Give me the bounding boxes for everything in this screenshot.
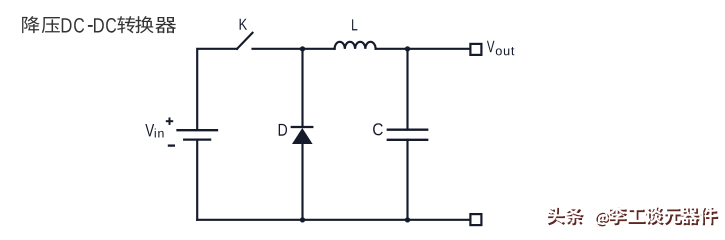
wire top-left corner segment <box>197 49 237 129</box>
label V_out <box>487 41 514 56</box>
diode D <box>292 127 313 144</box>
capacitor C plates <box>388 130 427 140</box>
watermark 头条@李工谈元器件 <box>546 206 718 226</box>
wire diode branch lower <box>301 144 303 220</box>
label K <box>240 19 247 30</box>
node junction diode top <box>300 46 305 51</box>
battery minus sign <box>168 144 175 146</box>
battery plus sign <box>166 118 173 125</box>
label C <box>373 123 383 135</box>
terminal square V_out <box>470 44 481 55</box>
battery V_in plates <box>178 130 218 139</box>
wire switch to inductor <box>253 48 335 50</box>
wire diode branch upper <box>301 49 303 127</box>
node junction capacitor bottom <box>405 217 410 222</box>
wire bottom rail <box>197 219 470 221</box>
wire capacitor branch upper <box>406 49 408 130</box>
wire inductor to output terminal <box>376 48 470 50</box>
node junction diode bottom <box>300 217 305 222</box>
label V_in <box>145 124 163 137</box>
terminal square bottom-right <box>470 214 481 225</box>
label D <box>279 124 287 136</box>
switch K lever <box>237 33 253 49</box>
wire capacitor branch lower <box>406 140 408 220</box>
title text 降压DC-DC转换器 <box>22 16 176 33</box>
node junction capacitor top <box>405 46 410 51</box>
label L <box>352 19 357 30</box>
inductor L <box>335 42 376 49</box>
wire battery to bottom rail <box>196 140 198 220</box>
circuit wiring group <box>178 33 482 225</box>
